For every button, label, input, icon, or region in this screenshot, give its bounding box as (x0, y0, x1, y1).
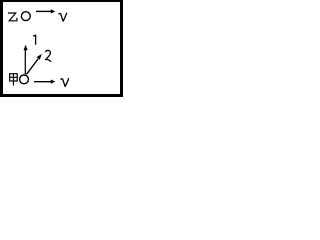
label 1 (33, 35, 36, 44)
label 甲 (object A) (10, 74, 18, 86)
arrow 1 (vertical) (24, 45, 28, 75)
object circle 甲 (20, 75, 29, 84)
object circle 乙 (21, 12, 30, 21)
arrow 2 (diagonal) (27, 54, 42, 75)
label v (bottom) (61, 79, 69, 87)
border frame (0, 0, 123, 97)
label v (top) (59, 13, 67, 21)
label 2 (45, 50, 51, 61)
label 乙 (object B) (9, 13, 17, 21)
velocity arrow of 乙 (36, 9, 55, 13)
velocity arrow of 甲 (34, 80, 55, 84)
